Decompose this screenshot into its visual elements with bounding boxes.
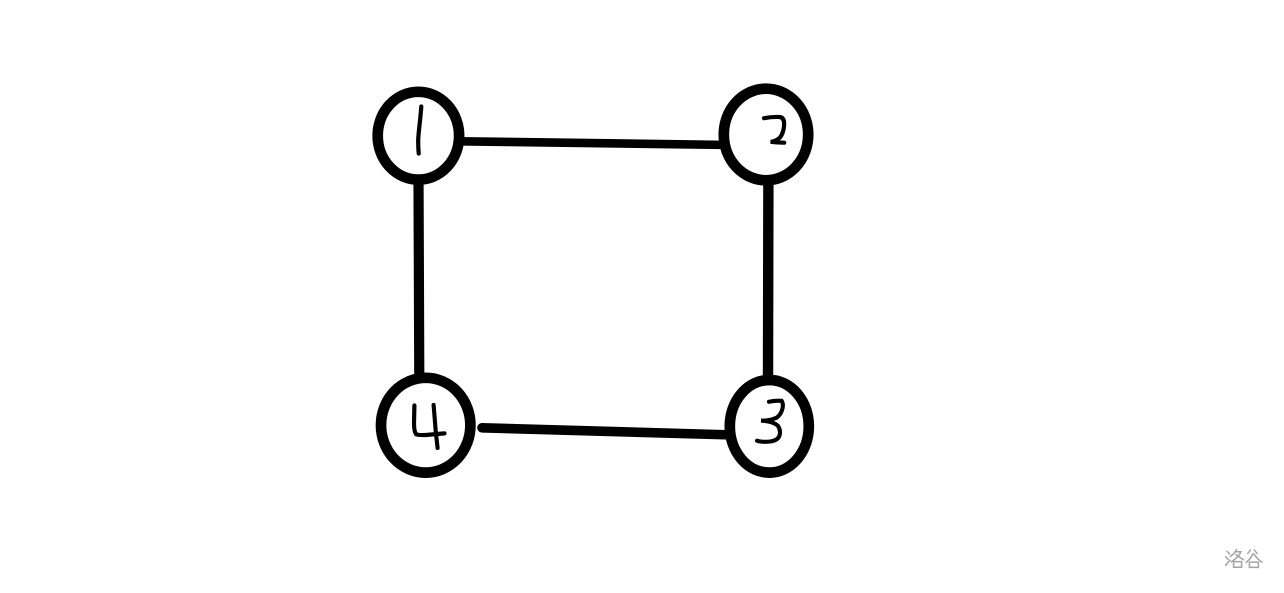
node 2 circle: [724, 89, 808, 181]
wire edge 1-2: [460, 141, 731, 145]
node 3 circle: [730, 380, 809, 473]
wire edge 2-3: [763, 176, 774, 382]
node 1 label "1": [418, 107, 421, 154]
node 4 circle: [381, 378, 470, 473]
node 4 label "4": [414, 406, 445, 436]
node 2 label "2": [764, 117, 784, 143]
node 1 circle: [378, 92, 459, 180]
watermark 洛谷: [1226, 550, 1262, 568]
node 3 label "3": [757, 401, 783, 442]
wire edge 1-4: [413, 178, 424, 382]
wire edge 4-3: [482, 428, 734, 435]
